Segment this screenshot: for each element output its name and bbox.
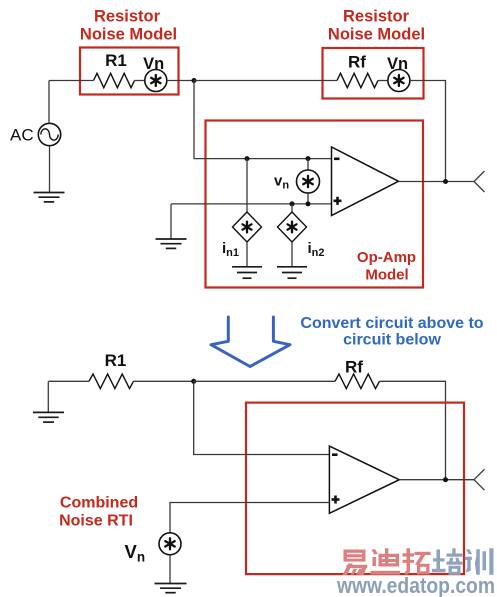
wire: Rf to noise source Vn <box>378 80 388 82</box>
wire: Vn to ground (bottom) <box>169 555 171 583</box>
resistor Rf <box>337 73 378 87</box>
wire: noise source Vn to node A <box>167 80 194 82</box>
svg-text:Resistor: Resistor <box>94 8 161 26</box>
op-amp U2 <box>329 446 399 513</box>
combined model box (bottom) <box>246 403 464 574</box>
svg-text:Vn: Vn <box>143 55 164 73</box>
wire: node A to resistor Rf <box>194 80 337 82</box>
resistor noise model box (R1) <box>80 48 179 95</box>
current source in2 <box>278 212 307 242</box>
noise source vn (op-amp) <box>297 170 320 193</box>
node: in2 tap on non-inverting wire <box>290 201 295 206</box>
label: Combined Noise RTI <box>59 495 138 530</box>
op-amp model box <box>206 121 424 288</box>
wire: R1 to node B <box>134 380 194 382</box>
wire: in2 vertical <box>291 204 293 212</box>
ground (bottom-left input) <box>33 412 64 422</box>
node: output junction (bottom) <box>443 477 448 482</box>
svg-text:Rf: Rf <box>348 53 366 72</box>
ground (in2) <box>277 267 307 278</box>
wire: Rf to output drop (bottom) <box>380 381 446 479</box>
wire: AC source to resistor R1 <box>49 80 94 82</box>
svg-text:R1: R1 <box>105 51 127 70</box>
resistor noise model box (Rf) <box>323 48 424 99</box>
svg-text:Model: Model <box>365 267 408 284</box>
wire: non-inverting ground stub <box>170 204 172 239</box>
wire: node B down to inverting input (bottom) <box>194 381 330 454</box>
ground (in1) <box>232 267 262 278</box>
wire: R1 to noise source Vn <box>135 80 145 82</box>
label: left Resistor Noise Model header <box>80 8 177 44</box>
watermark glyph: 易 <box>343 550 368 576</box>
node A (junction after R1 model) <box>192 78 197 83</box>
svg-text:R1: R1 <box>105 351 127 370</box>
watermark glyph: 培 <box>432 548 463 575</box>
AC source <box>38 123 60 145</box>
pin label: inverting input minus <box>334 158 340 161</box>
watermark glyph: 迪 <box>371 548 401 574</box>
wire: in2 to ground <box>291 242 293 267</box>
wire: node B to resistor Rf (bottom) <box>194 380 335 382</box>
node: vn tap on inverting wire <box>306 156 311 161</box>
svg-text:Vn: Vn <box>387 55 408 73</box>
wire: node A down to inverting input <box>194 81 332 159</box>
wire: top wire down to AC source <box>48 81 50 124</box>
output terminal (bottom) <box>474 469 485 490</box>
wire: in1 vertical <box>246 159 248 212</box>
pin label: non-inverting input plus (bottom) <box>332 496 340 504</box>
svg-text:Op-Amp: Op-Amp <box>357 249 416 266</box>
noise source Vn (combined, bottom) <box>159 533 181 555</box>
noise source Vn (Rf box) <box>388 70 410 92</box>
svg-text:Noise RTI: Noise RTI <box>59 513 133 530</box>
svg-text:Resistor: Resistor <box>343 8 410 26</box>
resistor R1 <box>94 73 135 87</box>
svg-text:Rf: Rf <box>345 358 363 377</box>
node B (bottom summing node) <box>191 379 196 384</box>
op-amp U1 <box>332 147 399 216</box>
wire: left end to resistor R1 (bottom) <box>48 380 89 382</box>
current source in1 <box>233 212 262 242</box>
wire: op-amp output <box>399 181 475 183</box>
label: Op-Amp Model <box>357 249 416 284</box>
node: output junction (top) <box>443 179 448 184</box>
output terminal (top) <box>474 171 485 192</box>
pin label: inverting input minus (bottom) <box>332 453 338 456</box>
ground (AC source) <box>34 193 65 202</box>
wire: ground to non-inverting input <box>171 203 332 205</box>
node: in1 tap on inverting wire <box>245 156 250 161</box>
wire: in1 to ground <box>246 242 248 267</box>
wire: left input to ground (bottom) <box>47 381 49 412</box>
node: vn tap on non-inverting wire <box>306 201 311 206</box>
pin label: non-inverting input plus <box>334 197 342 205</box>
svg-text:Convert circuit above to: Convert circuit above to <box>300 315 483 332</box>
label: Convert circuit above to circuit below <box>300 315 483 349</box>
svg-text:Noise Model: Noise Model <box>328 26 425 44</box>
label: right Resistor Noise Model header <box>328 8 425 44</box>
svg-text:Noise Model: Noise Model <box>80 26 177 44</box>
wire: vn source stubs <box>307 159 309 204</box>
ground (non-inverting input) <box>156 239 187 248</box>
wire: op-amp output (bottom) <box>399 479 474 481</box>
wire: Vn source to non-inverting input (bottom) <box>170 503 329 533</box>
watermark glyph: 训 <box>465 548 494 575</box>
wire: noise source Vn to output node (right feedback drop) <box>410 81 446 182</box>
svg-text:circuit below: circuit below <box>343 332 441 349</box>
ground (Vn combined) <box>155 584 187 593</box>
svg-text:www.edatop.com: www.edatop.com <box>336 573 495 597</box>
wire: AC source to ground <box>49 146 51 193</box>
svg-text:Combined: Combined <box>60 495 138 512</box>
svg-text:AC: AC <box>10 126 34 145</box>
noise source Vn (R1 box) <box>145 70 167 92</box>
annotation arrow (blue, convert) <box>211 317 290 367</box>
resistor R1 (bottom) <box>89 374 134 389</box>
resistor Rf (bottom) <box>335 374 379 389</box>
watermark glyph: 拓 <box>403 548 431 575</box>
